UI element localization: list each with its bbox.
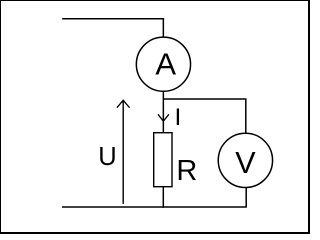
svg-text:A: A (155, 47, 176, 82)
svg-text:R: R (176, 155, 197, 187)
voltage arrow U head (117, 100, 130, 107)
svg-text:V: V (235, 146, 256, 180)
wire top vertical into ammeter (162, 19, 164, 37)
voltage arrow U shaft (122, 101, 124, 204)
svg-text:I: I (175, 104, 182, 131)
wire ammeter bottom to resistor top (162, 92, 164, 133)
wire bottom horizontal (62, 206, 247, 208)
resistor R1 body (154, 133, 172, 187)
svg-text:U: U (98, 143, 116, 171)
current arrow I head (158, 114, 169, 121)
wire resistor bottom (162, 187, 164, 208)
ammeter U1 circle (136, 37, 190, 91)
wire top horizontal (62, 18, 164, 20)
wire branch horizontal to voltmeter (163, 98, 246, 100)
wire branch vertical into voltmeter (245, 99, 247, 133)
voltmeter U2 circle (218, 133, 272, 187)
wire voltmeter bottom (245, 188, 247, 207)
